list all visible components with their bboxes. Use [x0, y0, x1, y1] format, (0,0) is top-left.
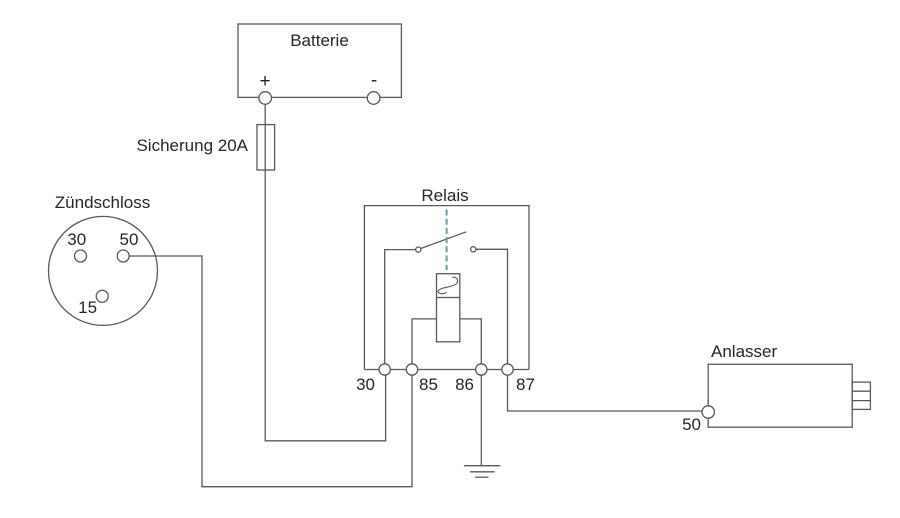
relay box: [364, 206, 529, 370]
svg-text:30: 30: [67, 230, 86, 249]
wire switch contact to terminal 87: [476, 249, 508, 369]
Zündschloss terminal 30: [75, 250, 87, 262]
svg-text:30: 30: [356, 375, 375, 394]
relay terminal 87: [502, 364, 513, 375]
relay terminal 86: [476, 364, 487, 375]
svg-text:-: -: [371, 70, 377, 91]
Zündschloss terminal 15: [96, 290, 108, 302]
wire terminal 87 to Anlasser 50: [508, 375, 703, 411]
svg-text:Relais: Relais: [421, 186, 468, 205]
ignition switch body Zündschloss: [49, 216, 158, 325]
svg-text:87: 87: [516, 375, 535, 394]
switch contact left: [416, 247, 421, 252]
Anlasser terminal 50: [702, 406, 714, 418]
relay terminal 85: [406, 364, 417, 375]
svg-text:50: 50: [682, 415, 701, 434]
wire fuse to relay terminal 30: [265, 170, 385, 441]
wire Zündschloss 50 to relay terminal 85: [129, 256, 412, 487]
starter box Anlasser: [708, 364, 852, 427]
battery terminal +: [259, 92, 272, 105]
starter connector lugs: [852, 382, 870, 409]
coil squiggle: [438, 277, 458, 293]
wire terminal 30 to switch contact: [385, 250, 416, 370]
relay coil bottom wire right to terminal 86: [460, 319, 482, 370]
relay coil L1: [437, 274, 460, 342]
switch lever: [421, 232, 467, 249]
relay bottom edge wire: [364, 369, 529, 371]
svg-text:85: 85: [419, 375, 438, 394]
dashed actuation line: [446, 210, 448, 271]
svg-text:Anlasser: Anlasser: [711, 342, 777, 361]
svg-text:+: +: [259, 71, 270, 92]
svg-text:15: 15: [78, 298, 97, 317]
fuse F1 Sicherung 20A: [257, 125, 275, 170]
relay coil bottom wire left to terminal 85: [412, 319, 437, 370]
battery box: [238, 24, 401, 97]
svg-text:86: 86: [455, 375, 474, 394]
svg-text:50: 50: [120, 230, 139, 249]
wire battery plus to fuse: [264, 104, 266, 125]
svg-text:Sicherung 20A: Sicherung 20A: [136, 136, 248, 155]
relay terminal 30: [379, 364, 390, 375]
wire terminal 86 to ground: [480, 375, 482, 466]
svg-text:Batterie: Batterie: [290, 31, 349, 50]
Zündschloss terminal 50: [117, 250, 129, 262]
ground: [464, 465, 501, 467]
battery terminal -: [367, 92, 380, 105]
svg-text:Zündschloss: Zündschloss: [55, 193, 150, 212]
switch contact right: [471, 247, 476, 252]
